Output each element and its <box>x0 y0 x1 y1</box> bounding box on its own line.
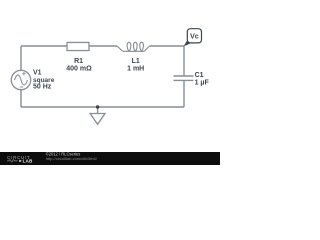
svg-text:1 mH: 1 mH <box>127 65 144 72</box>
svg-text:LAB: LAB <box>23 158 33 163</box>
svg-text:1 µF: 1 µF <box>195 79 210 86</box>
svg-text:50 Hz: 50 Hz <box>33 84 52 91</box>
svg-text:Vc: Vc <box>190 33 199 40</box>
svg-text:400 mΩ: 400 mΩ <box>66 65 92 72</box>
svg-text:V1: V1 <box>33 70 42 77</box>
svg-text:C1: C1 <box>195 72 204 79</box>
svg-text:L1: L1 <box>132 58 140 65</box>
svg-text:R1: R1 <box>74 58 83 65</box>
svg-text:http://circuitlab.com/c6b3rh4/: http://circuitlab.com/c6b3rh4/ <box>46 156 98 161</box>
